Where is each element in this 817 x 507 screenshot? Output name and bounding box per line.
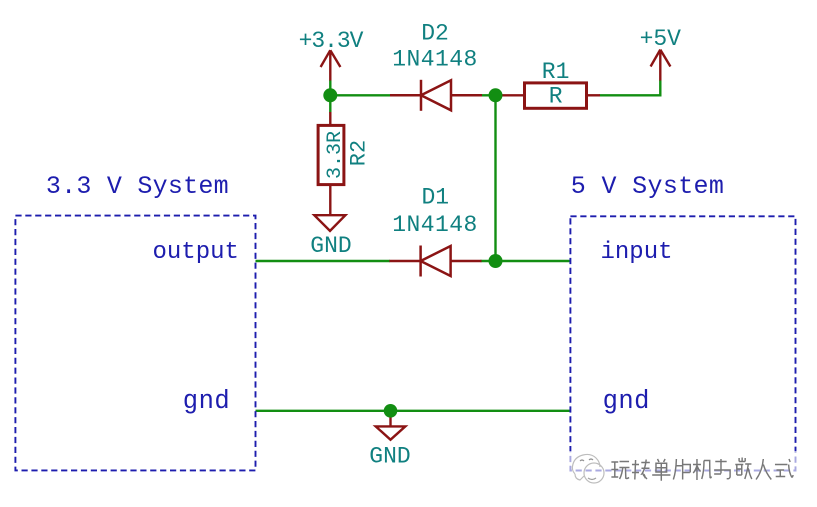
resistor R2 — [318, 112, 344, 215]
wire top rail y=95.3 from junction A to D2 cathode — [330, 94, 390, 96]
wire output row: box to D1 cathode — [256, 260, 391, 262]
svg-text:gnd: gnd — [603, 387, 650, 416]
char qian — [735, 458, 752, 480]
diode D1 — [389, 246, 481, 277]
char pian — [673, 459, 690, 480]
svg-text:+3.3V: +3.3V — [299, 28, 364, 54]
svg-text:R2: R2 — [347, 140, 372, 166]
wire D1 anode to input of 5V box — [481, 260, 571, 262]
svg-text:D2: D2 — [421, 20, 449, 46]
wire D2 anode to junction B (green stub) — [481, 94, 496, 96]
svg-text:+5V: +5V — [640, 26, 682, 52]
box 5V system — [570, 216, 795, 470]
resistor R1 — [496, 83, 601, 108]
svg-text:R: R — [549, 83, 563, 109]
svg-text:GND: GND — [310, 233, 351, 259]
char dan — [652, 459, 670, 481]
watermark logo — [572, 454, 604, 483]
diode D2 — [390, 80, 482, 111]
wire +3.3V stub above junction A — [329, 80, 331, 95]
char yu — [714, 459, 730, 479]
ground symbol on gnd rail — [389, 411, 391, 427]
svg-text:GND: GND — [369, 443, 410, 469]
svg-text:3.3R: 3.3R — [324, 131, 347, 179]
wire R1 right pin to +5V corner — [600, 80, 661, 95]
ground symbol below R2 — [314, 215, 345, 231]
junction B — [489, 88, 503, 102]
wire junction A down to R2 — [329, 95, 331, 112]
watermark text (stylised hanzi) — [611, 458, 793, 481]
box 3.3V system — [15, 216, 255, 471]
svg-text:1N4148: 1N4148 — [392, 212, 478, 238]
svg-text:1N4148: 1N4148 — [392, 46, 478, 72]
svg-text:R1: R1 — [542, 59, 570, 85]
char ru — [756, 459, 771, 480]
power symbol +3.3V pin and arrow — [321, 50, 341, 80]
svg-text:D1: D1 — [421, 185, 449, 211]
svg-text:input: input — [600, 239, 672, 266]
junction A — [323, 88, 337, 102]
power symbol +5V pin and arrow — [651, 50, 671, 81]
wire vertical junction B to junction C — [494, 95, 496, 261]
char zhuan — [632, 460, 650, 480]
wire gnd rail — [256, 410, 571, 412]
junction C — [489, 254, 503, 268]
char ji — [693, 459, 711, 480]
watermark translucent backing — [568, 451, 799, 486]
char shi — [775, 459, 793, 477]
svg-text:3.3 V System: 3.3 V System — [46, 172, 229, 201]
svg-text:5 V System: 5 V System — [571, 172, 725, 201]
char wan — [611, 462, 629, 480]
svg-text:gnd: gnd — [183, 387, 230, 416]
svg-text:output: output — [152, 239, 238, 266]
junction D — [384, 404, 398, 418]
